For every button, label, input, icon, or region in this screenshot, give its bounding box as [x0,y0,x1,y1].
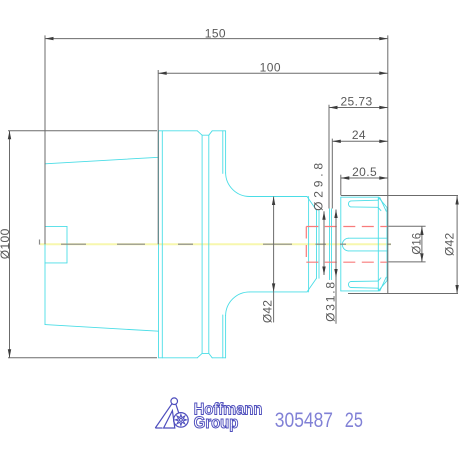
svg-text:305487: 305487 [275,409,333,432]
svg-text:Ø16: Ø16 [412,233,424,255]
svg-text:150: 150 [205,26,226,40]
svg-text:Group: Group [194,413,239,432]
svg-text:Ø31.8: Ø31.8 [323,280,337,322]
svg-text:Ø42: Ø42 [443,233,457,256]
svg-text:25.73: 25.73 [340,95,372,109]
svg-text:100: 100 [260,60,281,74]
svg-text:24: 24 [352,128,366,142]
svg-text:Ø29.8: Ø29.8 [312,159,326,211]
svg-text:25: 25 [345,409,363,432]
svg-text:Ø100: Ø100 [0,228,12,259]
svg-text:Ø42: Ø42 [261,300,275,323]
svg-text:20.5: 20.5 [352,165,377,179]
